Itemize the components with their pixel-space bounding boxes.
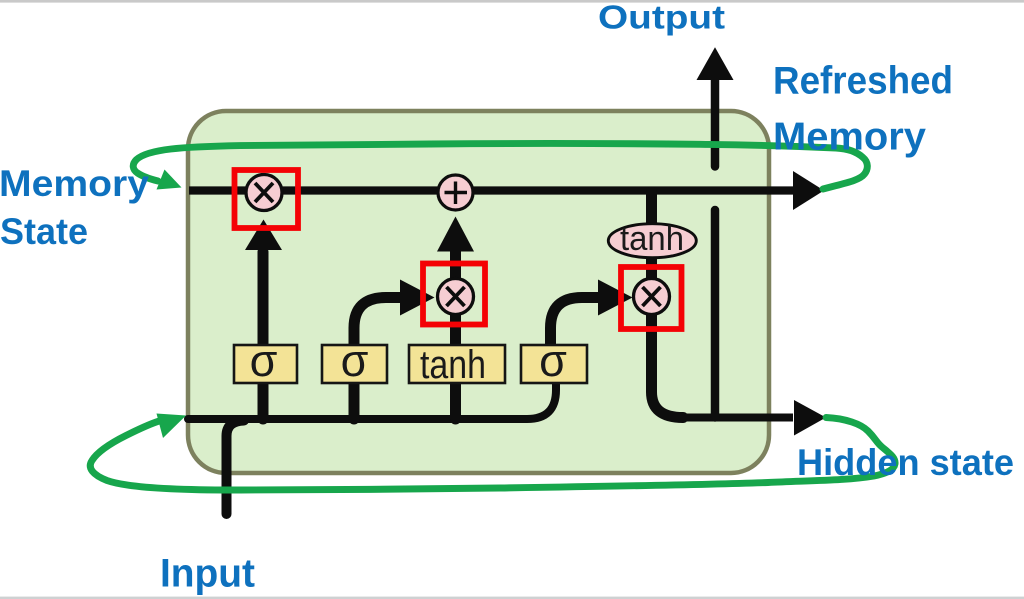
wire: tanh-box riser below box	[450, 382, 461, 419]
gate boxes (yellow)	[234, 345, 587, 383]
green arrowhead: hidden loop into bottom line (left)	[157, 414, 187, 439]
svg-text:State: State	[0, 211, 88, 252]
arrowhead: sigma2 gate into x2 (right)	[400, 280, 435, 316]
svg-text:Input: Input	[160, 551, 255, 595]
wire: sigma1 output shaft up to x1	[258, 252, 269, 345]
black arrowheads	[245, 47, 826, 435]
arrowhead: memory state out (right)	[793, 171, 824, 210]
wire: memory branch down through tanh ellipse into x3	[646, 192, 657, 297]
arrowhead: output (top)	[697, 47, 734, 80]
gate box tanh (candidate)	[409, 345, 505, 383]
arrowhead: sigma4 gate into x3 (right)	[598, 280, 633, 316]
svg-text:Output: Output	[598, 0, 725, 36]
LSTM cell body (rounded green box)	[188, 111, 769, 473]
wire: output branch vertical (below memory-line gap)	[711, 210, 720, 418]
bottom gray bar	[0, 597, 1024, 599]
svg-text:Memory: Memory	[0, 163, 149, 204]
operation node plus (add on memory line)	[438, 175, 473, 210]
operation node x1 (forget multiply on memory line)	[246, 175, 282, 211]
red highlight box around x2	[423, 264, 485, 325]
wire: tanh-box output up to x2	[450, 297, 461, 346]
arrowhead: sigma1 gate into x1 (up)	[245, 220, 282, 251]
svg-text:Refreshed: Refreshed	[773, 59, 953, 102]
operation node tanh ellipse (on memory branch)	[608, 220, 696, 258]
wire: hidden/input bottom line (left segment, curving up into sigma4)	[188, 382, 556, 419]
wire: x2 output shaft up to plus	[450, 248, 461, 297]
top gray bar	[0, 0, 1024, 3]
svg-text:tanh: tanh	[620, 220, 684, 258]
wire: hidden state output horizontal line	[680, 414, 793, 422]
operation node x3 (output multiply)	[634, 279, 670, 315]
wire: input vertical line joining bottom line	[227, 421, 245, 515]
svg-text:σ: σ	[250, 335, 278, 386]
svg-text:Memory: Memory	[773, 115, 926, 158]
gate box labels	[250, 335, 568, 387]
green recurrence loop (top, memory state)	[133, 143, 867, 189]
red highlight box around x3	[621, 267, 682, 329]
arrowhead: hidden state out (right)	[794, 400, 826, 436]
operation node x2 (input multiply)	[438, 279, 474, 315]
gate box sigma4 (output gate)	[521, 345, 587, 383]
black wires	[188, 80, 793, 514]
green recurrence loop (bottom, hidden state)	[90, 418, 895, 491]
wire: memory state horizontal line	[189, 186, 793, 194]
green arrowhead: memory loop into memory line (left)	[157, 170, 182, 190]
wire: sigma2 output curving right toward x2	[354, 298, 402, 347]
svg-text:Hidden state: Hidden state	[797, 442, 1014, 483]
wire: x3 output down, curving right into hidden state line	[652, 297, 684, 418]
svg-text:tanh: tanh	[420, 343, 486, 387]
red highlight box around x1	[235, 170, 299, 228]
gate box sigma2 (input gate)	[322, 345, 387, 383]
svg-text:σ: σ	[539, 335, 567, 386]
wire: sigma4 output curving right toward x3	[551, 298, 601, 347]
gate box sigma1 (forget gate)	[234, 345, 297, 383]
wire: sigma2 riser below box	[349, 382, 360, 419]
wire: output branch vertical (above memory-line gap), to top arrow	[711, 80, 720, 167]
wire: sigma1 riser (bottom line up through sigma1 box)	[258, 345, 269, 419]
arrowhead: x2 result into plus (up)	[437, 217, 474, 252]
svg-text:σ: σ	[341, 335, 369, 386]
